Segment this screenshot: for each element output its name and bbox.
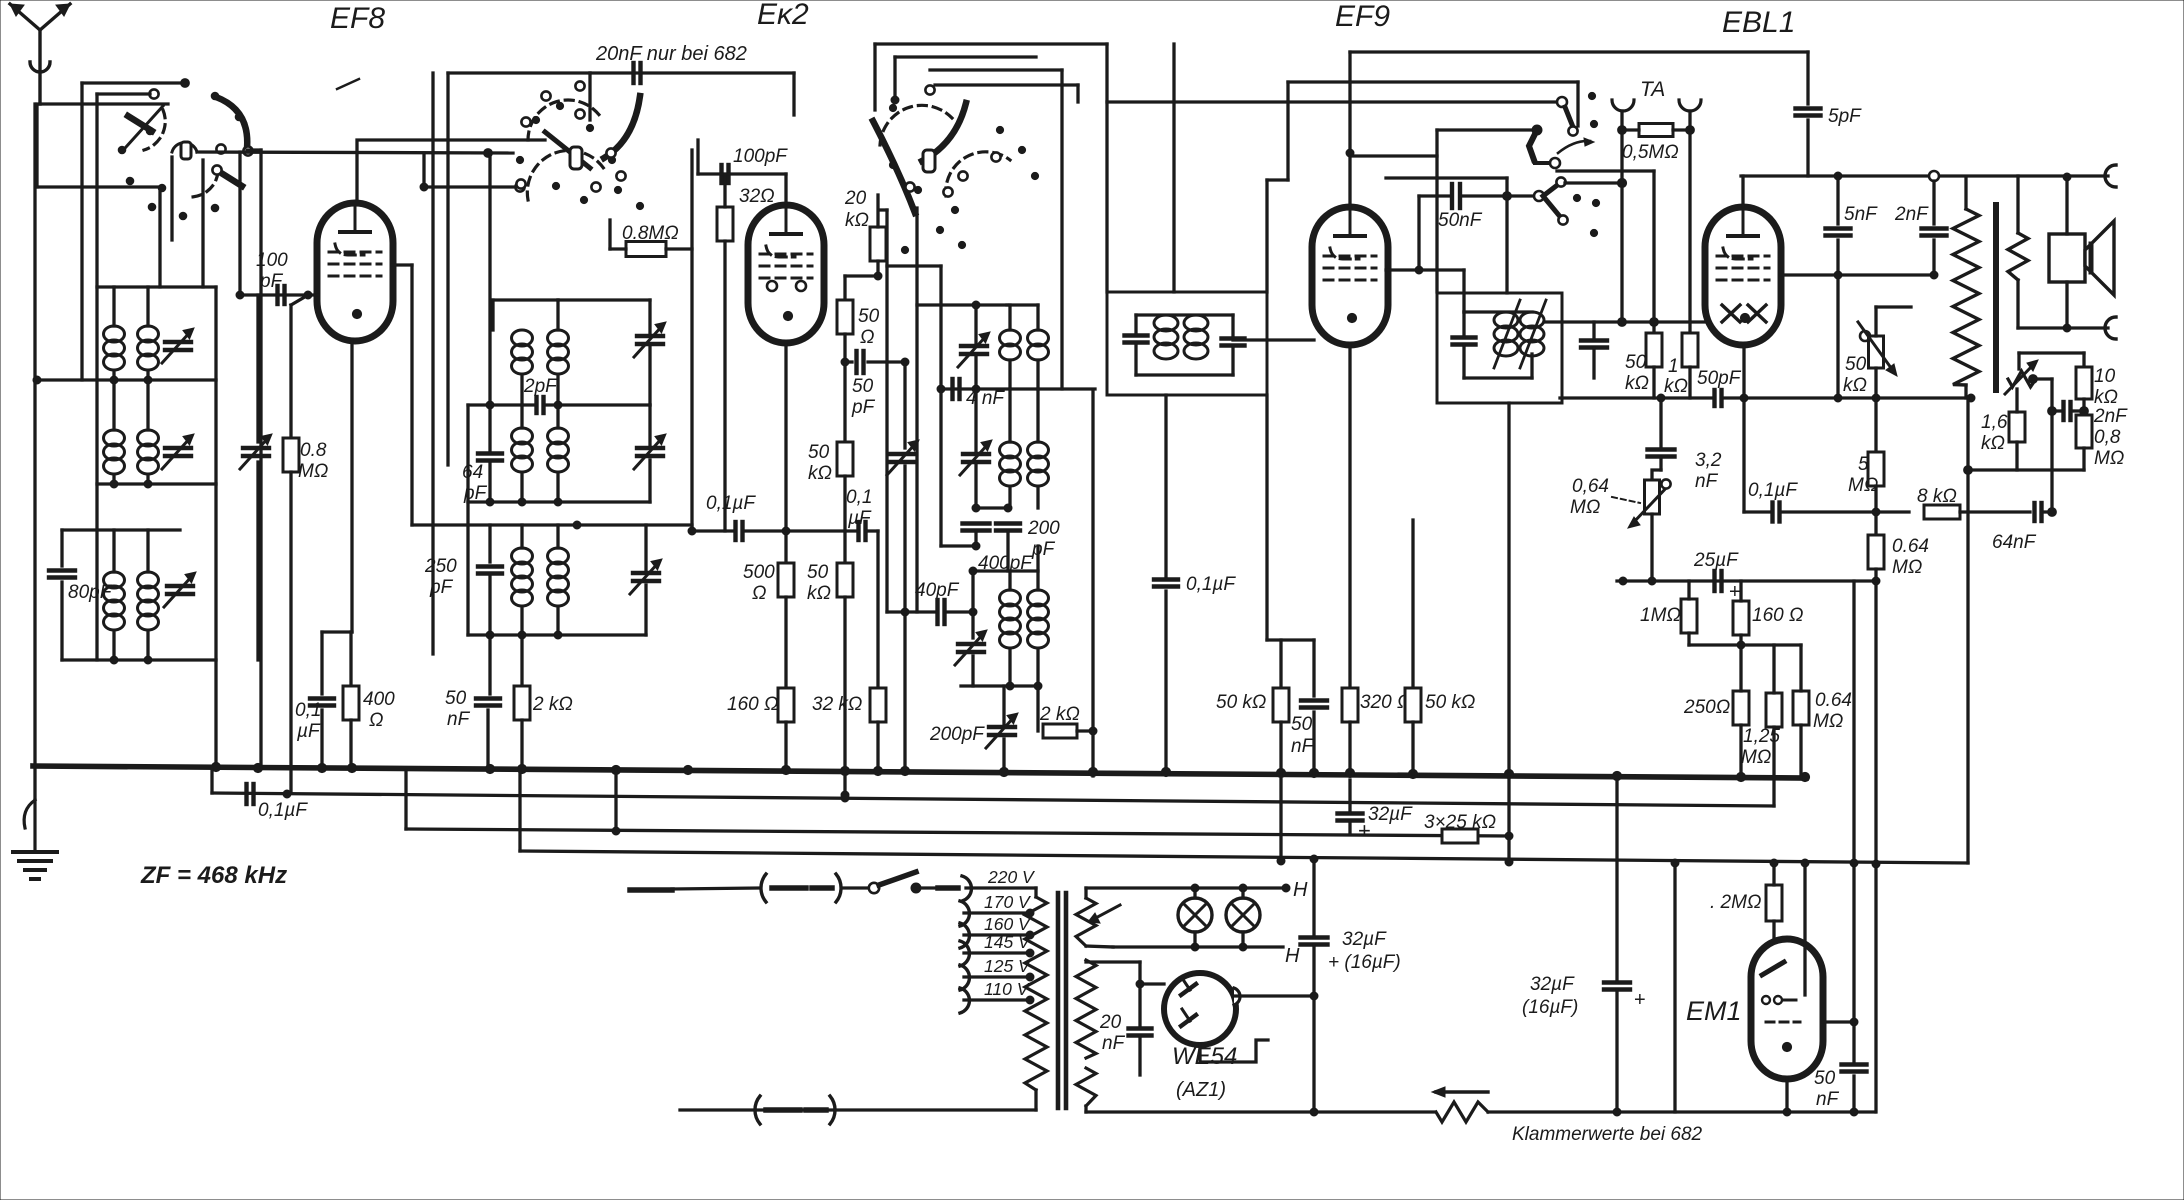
svg-text:80pF: 80pF — [68, 582, 113, 603]
terminal hook top — [2105, 165, 2116, 187]
svg-text:4 nF: 4 nF — [966, 388, 1005, 409]
capacitor 2nF tone — [2064, 402, 2071, 420]
node 3.2nF feed — [1657, 394, 1665, 402]
svg-text:32 kΩ: 32 kΩ — [812, 694, 862, 715]
svg-text:2nF: 2nF — [1894, 204, 1929, 225]
wire 064 bot — [1874, 569, 1877, 1112]
wire osc fb a — [845, 360, 852, 363]
trimmer C-L1 — [162, 328, 194, 363]
TA jack left — [1612, 100, 1634, 111]
switch S1a wafer arc — [144, 110, 165, 150]
capacitor 64nF — [2035, 503, 2042, 521]
node 1675 top — [1671, 859, 1679, 867]
wire x1166 drop — [1164, 395, 1167, 576]
svg-text:170 V: 170 V — [984, 892, 1032, 912]
junction bus 11 — [873, 766, 882, 775]
node y502b — [518, 498, 526, 506]
node H top — [1282, 884, 1290, 892]
node osc b — [891, 96, 899, 104]
capacitor 5pF — [1796, 109, 1821, 116]
wire B3 vc down — [644, 585, 647, 635]
wire spk bot drop — [2065, 282, 2068, 328]
wire 2k top — [520, 635, 523, 686]
wire pot064 bot — [1650, 514, 1653, 581]
fuse left — [761, 874, 841, 902]
capacitor 0.1uF cathode — [310, 699, 334, 706]
switch S2 open contact 7 — [616, 171, 625, 180]
svg-text:0,1µF: 0,1µF — [706, 493, 756, 514]
coil B1b — [548, 330, 569, 374]
wire rect bottom loop — [1200, 1040, 1268, 1062]
wire sec top — [2016, 176, 2019, 233]
wire S1 feed b — [97, 92, 150, 95]
svg-text:Ω: Ω — [752, 583, 766, 604]
wire prim bot — [1964, 385, 1967, 398]
node S2 link elbow — [420, 183, 428, 191]
fuse bottom — [755, 1096, 835, 1124]
svg-text:2 kΩ: 2 kΩ — [532, 694, 573, 715]
wire B2a bot — [520, 473, 523, 502]
coil B1a — [512, 330, 533, 374]
node y508b — [1004, 504, 1012, 512]
switch S2 open contact 8 — [591, 182, 600, 191]
tap dot 125 V — [1026, 973, 1034, 981]
wire 32uFb down — [1312, 945, 1315, 1112]
node S4 wiper pivot — [1532, 125, 1542, 135]
svg-text:50: 50 — [807, 562, 829, 583]
tap arc 220V — [962, 876, 971, 901]
wire EM1 dash link — [1823, 1020, 1854, 1023]
wire A-box bottom — [97, 285, 216, 288]
switch S4 dot 5 — [1590, 229, 1597, 236]
capacitor 32uF a — [1338, 814, 1363, 821]
wire antenna feed — [40, 102, 168, 105]
svg-text:kΩ: kΩ — [807, 583, 831, 604]
wire spk bottom — [2018, 326, 2108, 329]
wire tap 170 V — [964, 911, 1030, 914]
node lamp1 top — [1191, 884, 1199, 892]
switch S4 lever top — [1565, 107, 1573, 127]
wire x1093 — [1091, 390, 1094, 776]
svg-text:0.64: 0.64 — [1815, 690, 1852, 711]
switch S3 open contact 3 — [943, 187, 952, 196]
wire 200pad dn — [1006, 531, 1009, 571]
node L2b-bot — [144, 480, 152, 488]
svg-text:110 V: 110 V — [984, 979, 1031, 999]
wire y525 — [412, 523, 692, 526]
switch S1 lever 2 — [216, 97, 247, 148]
wire x1166 drop2 — [1164, 591, 1167, 768]
switch S3 open contact 2 — [958, 171, 967, 180]
wire x1968 down — [1966, 398, 1969, 863]
svg-text:. 2MΩ: . 2MΩ — [1710, 892, 1761, 913]
wire B1 vc up — [648, 300, 651, 336]
wire rect plate lead — [1140, 982, 1164, 985]
resistor 2k osc — [1043, 724, 1077, 738]
switch S1 open contact 3 — [216, 144, 225, 153]
wire trafo top corner — [1034, 888, 1037, 897]
svg-text:kΩ: kΩ — [1664, 376, 1688, 397]
wire osc v973 — [971, 571, 974, 638]
wire 20nF line — [590, 71, 794, 74]
wire IF2 sec top — [1592, 322, 1595, 340]
svg-text:Ω: Ω — [369, 710, 383, 731]
wire osc v941 — [939, 266, 942, 546]
svg-text:50: 50 — [1291, 714, 1313, 735]
wire osc2a top — [1008, 389, 1011, 442]
wire col845 d — [843, 476, 846, 563]
wire 1k bot — [1688, 367, 1691, 398]
node y176 circle — [1929, 171, 1939, 181]
wire cath y632 — [322, 630, 352, 633]
wire osc top b — [895, 55, 1036, 58]
wire sec bot — [2016, 280, 2019, 328]
wire 250 bot — [1739, 725, 1742, 777]
wire 0.5M lead l — [1622, 128, 1639, 131]
wire lamp1 stem b — [1193, 932, 1196, 947]
resistor 50k ef9 b — [1405, 688, 1421, 722]
resistor 1M — [1681, 599, 1697, 633]
switch S3 index rect — [923, 150, 935, 172]
capacitor 50nF B — [476, 699, 500, 706]
wire y531 a — [692, 529, 733, 532]
tube EBL1 diode X — [1722, 305, 1766, 322]
wire B2 vc up — [648, 405, 651, 448]
wire y660 — [62, 658, 216, 661]
wire IF2 a2 — [1462, 345, 1465, 378]
wire lamp line bottom — [1113, 945, 1283, 948]
wire y130 — [1437, 128, 1537, 131]
wire EM1 grid — [1803, 863, 1806, 995]
wire x1107 down — [1105, 44, 1108, 292]
resistor 2M — [1766, 885, 1782, 921]
trimmer B2 — [634, 434, 666, 469]
svg-text:125 V: 125 V — [984, 956, 1032, 976]
wire S2 r08 left — [610, 247, 626, 250]
capacitor 0.1uF ek2 b — [859, 522, 866, 540]
resistor 20k — [870, 227, 886, 261]
resistor 50k avc — [837, 563, 853, 597]
switch S3 contact dot 2 — [914, 186, 921, 193]
node anode 1419 — [1415, 266, 1423, 274]
wire y484 — [97, 482, 216, 485]
node tone wiper — [2029, 375, 2038, 384]
svg-text:1,6: 1,6 — [1981, 412, 2008, 433]
svg-text:10: 10 — [2094, 366, 2116, 387]
wire tap 160 V — [964, 933, 1030, 936]
wire col845 b — [843, 334, 846, 362]
svg-text:50: 50 — [445, 688, 467, 709]
wire x1288 — [1286, 82, 1289, 180]
wire EBL1 top — [1741, 176, 1744, 206]
wire 100pF wire r — [729, 172, 786, 175]
wire B outer left — [431, 73, 434, 654]
svg-text:40pF: 40pF — [915, 580, 960, 601]
switch S3b wafer arc — [946, 152, 1010, 196]
svg-text:EBL1: EBL1 — [1722, 6, 1795, 39]
tap dot 145 V — [1026, 949, 1034, 957]
wire B box top — [448, 71, 590, 74]
wire HV col — [1138, 962, 1141, 1028]
wire y171 — [1557, 169, 1654, 172]
switch S3 contact dot 10 — [889, 104, 896, 111]
wire y645 — [1689, 643, 1801, 646]
node 903 y612 — [901, 608, 909, 616]
node y405b — [554, 401, 562, 409]
wire 50nF wire a — [1419, 194, 1449, 197]
resistor 160 ebl — [1733, 601, 1749, 635]
svg-text:100pF: 100pF — [733, 146, 788, 167]
wire B2a top — [520, 405, 523, 428]
node y686b — [1034, 682, 1042, 690]
node oscfb l — [841, 358, 849, 366]
node 2k osc — [1089, 727, 1097, 735]
node EM1 grid top — [1801, 859, 1809, 867]
coil L3b — [138, 572, 159, 630]
capacitor 0.1uF avc — [247, 784, 254, 804]
capacitor 40pF — [938, 600, 945, 624]
capacitor 80pF — [49, 571, 75, 578]
svg-text:0,8: 0,8 — [2094, 427, 2121, 448]
node 32uFb top — [1310, 855, 1318, 863]
switch S1 rotor hub — [172, 142, 197, 159]
capacitor IF1 b — [1222, 339, 1245, 346]
coil OSC3b — [1028, 590, 1049, 648]
wire y102 — [1107, 100, 1562, 103]
wire osc2b top — [1036, 389, 1039, 442]
wire cath 512 — [1742, 398, 1745, 512]
trimmer B1 — [634, 322, 666, 357]
tone pot arrow — [2005, 360, 2038, 394]
wire S1 drop 3 — [201, 160, 204, 287]
node 692 y531 — [688, 527, 696, 535]
switch S1 lever 1 — [128, 116, 152, 131]
wire IF2 bot — [1464, 376, 1532, 379]
switch S1 open contact 1 — [149, 89, 158, 98]
wire 160e top — [1739, 581, 1742, 601]
svg-text:EF9: EF9 — [1335, 0, 1390, 33]
svg-text:+: + — [1358, 818, 1371, 843]
switch S2 open contact 5 — [516, 179, 525, 188]
wire osc1b top — [1036, 305, 1039, 330]
svg-text:3,2: 3,2 — [1695, 450, 1722, 471]
wire L2a bot — [112, 475, 115, 484]
node y502c — [554, 498, 562, 506]
wire B2b bot — [556, 473, 559, 502]
svg-text:1: 1 — [1668, 356, 1679, 377]
wire 1617 b — [1615, 990, 1618, 1112]
coil L3a — [104, 572, 125, 630]
capacitor 50pF ebl — [1715, 390, 1722, 406]
wire mains c — [921, 886, 936, 889]
wire y405 r — [544, 403, 650, 406]
wire y612 40pF l — [887, 610, 935, 613]
wire osc vc1 dn — [974, 354, 977, 389]
wire x1854 — [1852, 581, 1855, 1062]
wire y380 — [35, 378, 216, 381]
coil L2a — [104, 430, 125, 474]
junction bus 4 — [347, 763, 356, 772]
svg-text:50 kΩ: 50 kΩ — [1216, 692, 1266, 713]
wire 20nF bot — [1138, 1036, 1141, 1075]
wire 200pF var dn — [1002, 739, 1005, 775]
node L1a-bot — [110, 376, 118, 384]
dial lamp 2 — [1226, 898, 1260, 932]
svg-text:50: 50 — [808, 442, 830, 463]
wire c01 bot — [320, 710, 323, 768]
wire r400 top — [349, 632, 352, 686]
svg-text:250: 250 — [424, 556, 457, 577]
switch S3 contact dot 6 — [936, 226, 943, 233]
svg-text:Ω: Ω — [860, 327, 874, 348]
switch S1 open contact 2 — [243, 146, 252, 155]
wire pot down — [1874, 368, 1877, 452]
wire 160 bot — [784, 722, 787, 770]
node y508a — [972, 504, 980, 512]
capacitor 250pF — [478, 567, 502, 574]
wire B1 vc link — [558, 298, 650, 301]
wire osc h305 — [917, 303, 1007, 306]
wire y502 — [468, 500, 650, 503]
svg-text:50 kΩ: 50 kΩ — [1425, 692, 1475, 713]
wire IF1 a — [1134, 315, 1137, 335]
wire y686 — [961, 684, 1038, 687]
switch S2 contact dot 5 — [552, 182, 559, 189]
wire y546 — [941, 544, 976, 547]
wire L3b top — [146, 530, 149, 572]
tap arc 125 V — [960, 965, 969, 990]
node y525 — [573, 521, 581, 529]
switch S1 contact dot 6 — [148, 203, 156, 211]
switch S2 contact dot 8 — [636, 202, 643, 209]
node 2M top — [1770, 859, 1778, 867]
wire 50k ef9 b top — [1411, 520, 1414, 688]
wire S4 to TA — [1565, 181, 1622, 184]
wire EF8 top to S2 — [357, 140, 545, 203]
wire jog 1267 — [1267, 178, 1288, 181]
resistor 1k — [1682, 333, 1698, 367]
switch S2 open contact 1 — [541, 91, 550, 100]
capacitor 200pF pad — [996, 524, 1020, 531]
stray mark — [337, 79, 359, 89]
wire 2k bot — [520, 720, 523, 768]
resistor 400 ohm — [343, 686, 359, 720]
node 1509 C — [1505, 858, 1513, 866]
switch S4 V-lever — [1543, 183, 1562, 219]
wire line C drop — [518, 770, 521, 851]
coil B3b — [548, 548, 569, 606]
switch S1b wafer arc — [189, 172, 218, 197]
svg-text:50: 50 — [858, 306, 880, 327]
svg-text:160 V: 160 V — [984, 914, 1032, 934]
wire y531 c — [866, 529, 878, 532]
potentiometer 0.64M — [1645, 480, 1660, 514]
wire y389 — [941, 387, 1095, 390]
wire x2052 — [2050, 379, 2053, 512]
svg-text:MΩ: MΩ — [298, 461, 328, 482]
trimmer OSC mid — [887, 440, 919, 475]
node avc b — [841, 794, 849, 802]
wire A-mid vert — [214, 287, 217, 766]
node spk bot — [2063, 324, 2071, 332]
switch S3 contact dot 4 — [996, 126, 1003, 133]
wire B3b bot — [556, 608, 559, 635]
junction bus 16 — [1276, 768, 1285, 777]
svg-text:MΩ: MΩ — [1570, 497, 1600, 518]
IF2 trimmer arrow 2 — [1520, 300, 1546, 368]
capacitor 20nF — [634, 63, 641, 83]
wire 50k dio top — [1652, 171, 1655, 333]
node TA r res — [1686, 126, 1695, 135]
wire line B — [406, 829, 1509, 836]
node y176 5nF — [1834, 172, 1842, 180]
wire col845 c — [843, 362, 846, 442]
wire L1b bot — [146, 371, 149, 380]
tube V5 EM1 — [1751, 939, 1823, 1079]
node 1281 lineC — [1277, 857, 1285, 865]
wire tone roof r — [2082, 353, 2085, 367]
svg-text:Eĸ2: Eĸ2 — [757, 0, 809, 31]
svg-text:MΩ: MΩ — [2094, 448, 2124, 469]
junction bus 17 — [1309, 768, 1318, 777]
wire osc vc1 up — [974, 305, 977, 346]
wire L2b bot — [146, 475, 149, 484]
capacitor 200pF variable — [986, 713, 1018, 748]
wire r400 bot — [349, 720, 352, 768]
wire osc top b l — [893, 57, 896, 100]
wire 64pF col up — [488, 153, 491, 405]
svg-text:50: 50 — [852, 376, 874, 397]
wire tap 110 V — [964, 998, 1030, 1001]
wire 50k dio bot — [1652, 367, 1655, 398]
switch S4 Z-wiper — [1529, 130, 1537, 160]
coil L2b — [138, 430, 159, 474]
wire y640 — [1267, 638, 1314, 641]
wire A-left vert — [80, 83, 83, 380]
wire 10k bot — [2082, 399, 2085, 415]
coil OSC1b — [1028, 330, 1049, 360]
svg-text:µF: µF — [847, 508, 872, 529]
wire 2M bot — [1772, 921, 1775, 948]
wire 50k ef9 b bot — [1411, 722, 1414, 774]
trimmer OSC2 — [960, 440, 992, 475]
wire B3a bot — [520, 608, 523, 635]
junction bus 18 — [1345, 768, 1354, 777]
resistor 32k — [870, 688, 886, 722]
capacitor 50nF ef9 — [1452, 184, 1460, 208]
switch S4 dot 3 — [1573, 194, 1580, 201]
svg-text:500: 500 — [743, 562, 775, 583]
wire 32 top — [723, 174, 726, 207]
switch S2 open contact 6 — [606, 148, 615, 157]
wire B2 vc down — [648, 460, 651, 502]
wire L2b top — [146, 380, 149, 430]
svg-text:TA: TA — [1640, 78, 1665, 101]
switch S1 contact dot 9 — [118, 146, 126, 154]
wire IF1 sec out — [1233, 338, 1314, 341]
resistor 32 ohm — [717, 207, 733, 241]
svg-text:20: 20 — [844, 188, 867, 209]
switch S1 contact dot 1 — [146, 127, 154, 135]
wire 2nF tone l — [2052, 409, 2061, 412]
node 5M 512 — [1872, 508, 1880, 516]
wire 20k bot — [876, 261, 879, 276]
wire IF2 sec bot — [1592, 348, 1595, 378]
node osc 305 — [972, 301, 980, 309]
wire 064b top — [1799, 645, 1802, 691]
node pot 398 — [1872, 394, 1880, 402]
wire osc h266 — [887, 264, 941, 267]
